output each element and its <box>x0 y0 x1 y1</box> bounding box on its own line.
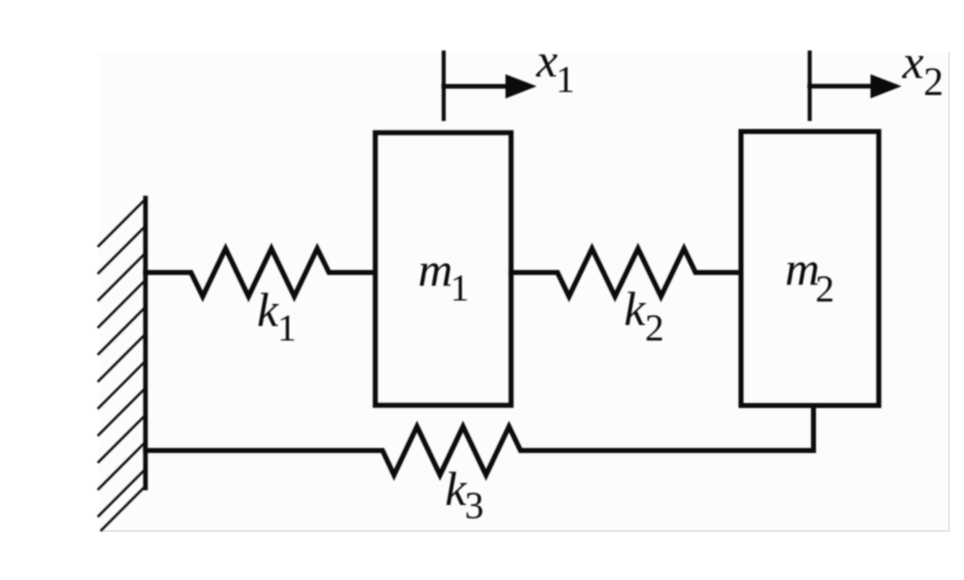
svg-text:x: x <box>535 35 557 88</box>
displacement arrow x1 <box>444 51 537 122</box>
svg-text:3: 3 <box>465 485 484 527</box>
wall <box>143 198 148 488</box>
svg-text:2: 2 <box>645 308 664 350</box>
svg-text:x: x <box>902 36 924 89</box>
svg-text:1: 1 <box>556 59 575 101</box>
svg-text:1: 1 <box>450 268 469 310</box>
mass m2 <box>741 132 879 406</box>
label k1 <box>257 284 296 349</box>
svg-text:2: 2 <box>815 268 834 310</box>
svg-text:1: 1 <box>277 307 296 349</box>
svg-text:m: m <box>418 244 453 297</box>
wall hatching <box>99 199 146 530</box>
label m1 <box>418 244 469 310</box>
spring k3 <box>146 427 814 476</box>
spring k1 <box>146 249 376 297</box>
svg-text:2: 2 <box>924 59 944 104</box>
label m2 <box>785 243 834 310</box>
label x2 <box>902 36 944 104</box>
label k3 <box>445 463 484 527</box>
label k2 <box>624 283 664 350</box>
mass m1 <box>375 133 511 406</box>
spring k2 <box>511 249 741 297</box>
svg-text:k: k <box>624 283 647 336</box>
label x1 <box>535 35 575 102</box>
wire m2 to k3 <box>811 404 816 451</box>
displacement arrow x2 <box>810 51 902 122</box>
